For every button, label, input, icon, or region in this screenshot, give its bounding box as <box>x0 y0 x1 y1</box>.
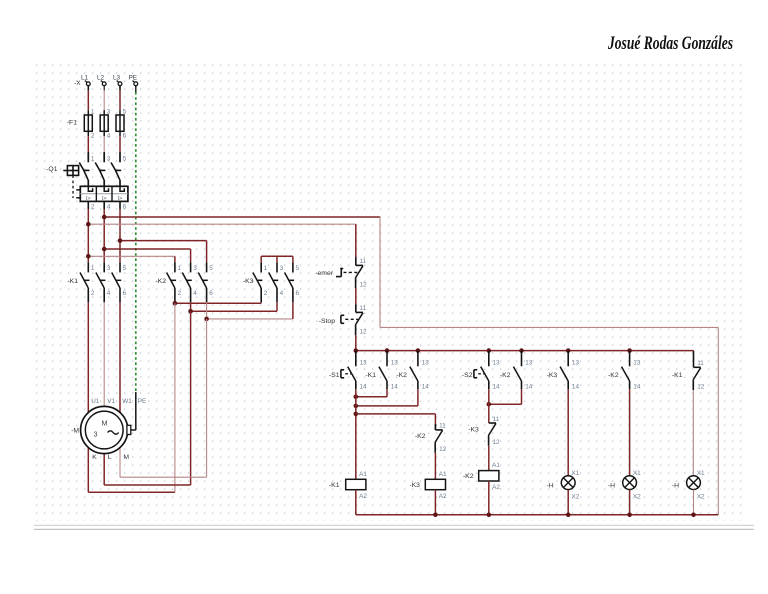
svg-text:L2: L2 <box>97 74 105 81</box>
svg-text:6: 6 <box>296 290 300 297</box>
svg-text:-K2: -K2 <box>396 372 407 379</box>
lamp -H X1-X2 (lamp3) <box>672 470 705 500</box>
wire branch to K2 NC contact <box>356 414 436 430</box>
svg-text:-K3: -K3 <box>243 278 254 285</box>
svg-text:K: K <box>92 454 97 461</box>
pushbutton -S2 NO 13-14 <box>462 351 500 391</box>
junction Q1:2 / K2:1 feed <box>86 254 91 259</box>
wire F1:2 to Q1:1 <box>87 136 89 152</box>
svg-text:11: 11 <box>493 416 500 423</box>
svg-text:X1: X1 <box>633 470 641 477</box>
svg-text:3: 3 <box>280 265 284 272</box>
breaker Q1 magnetic element I> <box>86 196 91 202</box>
coil -K2 A1-A2 <box>463 462 500 491</box>
svg-text:-K1: -K1 <box>672 372 683 379</box>
svg-text:13: 13 <box>493 359 501 366</box>
junction top rail <box>487 348 492 353</box>
wire L1 terminal to fuse F1:1 <box>87 86 89 111</box>
label -K3 NC <box>468 426 479 433</box>
svg-text:A1: A1 <box>492 462 500 469</box>
svg-text:5: 5 <box>123 265 127 272</box>
svg-text:13: 13 <box>422 359 430 366</box>
contactor K2 label <box>155 278 166 285</box>
label -K2 aux <box>396 372 407 379</box>
svg-text:W1: W1 <box>122 398 132 405</box>
label -K1 lamp3 <box>672 372 683 379</box>
coil -K1 A1-A2 <box>329 471 367 500</box>
svg-text:A2: A2 <box>492 484 500 491</box>
wire L3 to K2:5 (y240) <box>120 241 207 263</box>
wire motor L to K2:4 node <box>104 311 190 485</box>
svg-text:4: 4 <box>280 290 284 297</box>
svg-text:14: 14 <box>633 383 641 390</box>
lamp -H X1-X2 (lamp1) <box>547 470 580 500</box>
emergency stop button -emer NC 11-12 <box>315 257 367 288</box>
junction bottom rail <box>627 513 632 518</box>
svg-text:-K2: -K2 <box>415 433 426 440</box>
wire K1:2 to motor U1 <box>87 302 89 413</box>
wire coil K3 to bottom rail <box>434 490 436 515</box>
svg-text:2: 2 <box>178 290 182 297</box>
wire F1:4 to Q1:3 <box>103 136 105 152</box>
wire PE green dashed <box>135 86 137 392</box>
svg-text:X1: X1 <box>572 470 580 477</box>
svg-text:1: 1 <box>91 265 95 272</box>
svg-text:-X: -X <box>74 80 81 87</box>
fuse F1 pole 3-4 <box>100 109 111 140</box>
svg-text:11: 11 <box>439 423 446 430</box>
aux contact -K2 NO 13-14 (group2) <box>513 351 532 391</box>
fuse F1 pole 1-2 <box>84 109 95 140</box>
aux contact -K3 NC 11-12 <box>488 416 500 446</box>
breaker Q1 thermal element <box>88 186 92 191</box>
wire K1:14 return to S1 column <box>356 389 387 397</box>
svg-text:1: 1 <box>178 265 182 272</box>
svg-text:3: 3 <box>94 430 98 439</box>
wire K3 star bridge 1-3-5 <box>261 256 293 262</box>
wire Q1:6 down to K1:5 <box>119 209 121 262</box>
svg-text:-K2: -K2 <box>608 372 619 379</box>
wire motor M to K2:6 node <box>120 319 207 477</box>
junction top rail <box>385 348 390 353</box>
svg-text:-S2: -S2 <box>462 372 473 379</box>
junction K2:4 / motor L <box>188 309 193 314</box>
aux contact -K3 NO 13-14 (lamp1) <box>560 351 579 391</box>
junction K2:2 / motor K <box>173 301 178 306</box>
wire motor K to K2:2 node <box>88 303 175 492</box>
svg-text:14: 14 <box>391 383 399 390</box>
svg-text:3: 3 <box>107 109 111 116</box>
contactor K2 main pole 5-6 <box>198 262 213 302</box>
svg-text:X2: X2 <box>633 493 641 500</box>
svg-text:4: 4 <box>193 290 197 297</box>
svg-text:12: 12 <box>360 328 368 335</box>
breaker Q1 magnetic element I> <box>118 196 123 202</box>
svg-text:6: 6 <box>209 290 213 297</box>
svg-text:3: 3 <box>107 156 111 163</box>
aux contact -K1 NC 11-12 (lamp3) <box>693 351 705 391</box>
terminal L3 <box>117 81 122 86</box>
wire K3 aux to lamp H1 <box>567 389 569 476</box>
wire L2 to K2:3 (y249) <box>104 249 190 262</box>
junction bottom rail <box>691 513 696 518</box>
wire K2:14 return to S2 column <box>489 389 522 404</box>
breaker Q1 bottom pins 2 4 6 <box>88 201 126 210</box>
junction bottom rail <box>487 513 492 518</box>
svg-text:I>: I> <box>102 196 107 202</box>
svg-text:4: 4 <box>107 132 111 139</box>
svg-text:11: 11 <box>360 258 367 265</box>
contactor K2 main pole 1-2 <box>167 262 182 302</box>
wire L1 to K2:1 (y256) <box>88 256 175 262</box>
junction top rail <box>627 348 632 353</box>
canvas bottom border <box>34 525 754 529</box>
label -K3 lamp1 <box>547 372 558 379</box>
svg-text:-K3: -K3 <box>547 372 558 379</box>
svg-text:1: 1 <box>91 156 95 163</box>
terminal L1 <box>85 81 90 86</box>
junction top rail <box>566 348 571 353</box>
svg-text:14: 14 <box>360 383 368 390</box>
svg-text:5: 5 <box>123 156 127 163</box>
wire emer:12 to Stop:11 <box>355 288 357 304</box>
svg-text:-F1: -F1 <box>67 120 77 127</box>
junction top rail <box>519 348 524 353</box>
wire Stop:12 to rail <box>355 335 357 350</box>
svg-text:14: 14 <box>525 383 533 390</box>
motor PE connection <box>127 392 136 435</box>
contactor K3 main pole 3-4 <box>269 262 284 302</box>
junction bottom rail <box>433 513 438 518</box>
control top rail <box>356 350 694 352</box>
svg-text:6: 6 <box>123 203 127 210</box>
svg-text:12: 12 <box>439 446 447 453</box>
wire L2 terminal to fuse F1:3 <box>103 86 105 111</box>
svg-text:Josué Rodas Gonzáles: Josué Rodas Gonzáles <box>607 33 733 54</box>
breaker Q1 thermal element <box>120 186 124 191</box>
junction Q1:6 / K2:5 feed <box>118 238 123 243</box>
svg-text:6: 6 <box>123 132 127 139</box>
wire coil K1 to bottom rail <box>355 490 357 515</box>
wire coil K2 to bottom rail <box>488 481 490 515</box>
aux contact -K2 NO 13-14 <box>410 351 429 391</box>
svg-text:-K1: -K1 <box>329 482 340 489</box>
svg-text:M: M <box>102 419 108 428</box>
junction branch to K2 NC <box>354 412 359 417</box>
breaker Q1 pole 3-4 contact <box>95 152 111 186</box>
breaker Q1 pole 1-2 contact <box>79 152 95 186</box>
svg-text:13: 13 <box>572 359 580 366</box>
svg-text:12: 12 <box>360 281 368 288</box>
svg-text:-Stop: -Stop <box>319 318 335 325</box>
svg-text:12: 12 <box>697 383 705 390</box>
label -K2 NC <box>415 433 426 440</box>
contactor K1 main pole 3-4 <box>96 262 111 302</box>
svg-text:A1: A1 <box>359 471 367 478</box>
breaker Q1 pole 5-6 contact <box>111 152 127 186</box>
control bottom rail <box>356 514 719 516</box>
svg-text:-K3: -K3 <box>468 426 479 433</box>
wire F1:6 to Q1:5 <box>119 136 121 152</box>
svg-text:PE: PE <box>138 398 147 405</box>
wire K2:14 return to S1 column <box>356 389 418 406</box>
svg-text:I>: I> <box>118 196 123 202</box>
svg-text:V1: V1 <box>107 398 115 405</box>
junction Q1:4 / K2:3 feed <box>102 247 107 252</box>
wire K2 aux to lamp H2 <box>629 389 631 476</box>
label -K2 aux group2 <box>500 372 511 379</box>
lamp -H X1-X2 (lamp2) <box>608 470 641 500</box>
svg-text:-H: -H <box>608 482 615 489</box>
svg-text:4: 4 <box>107 290 111 297</box>
svg-text:5: 5 <box>296 265 300 272</box>
svg-text:-K3: -K3 <box>409 482 420 489</box>
svg-text:11: 11 <box>360 305 367 312</box>
wire K2:4 to K3:4 <box>191 302 277 311</box>
breaker Q1 thermal element <box>104 186 108 191</box>
contactor K3 main pole 5-6 <box>285 262 300 302</box>
svg-text:-K2: -K2 <box>155 278 166 285</box>
svg-text:-Q1: -Q1 <box>46 166 58 173</box>
label -K2 lamp2 <box>608 372 619 379</box>
contactor K3 main pole 1-2 <box>253 262 268 302</box>
svg-text:L1: L1 <box>81 74 89 81</box>
svg-text:M: M <box>123 454 129 461</box>
svg-text:I>: I> <box>86 196 91 202</box>
wire Q1:4 down to K1:3 <box>103 209 105 262</box>
svg-text:12: 12 <box>493 439 501 446</box>
breaker Q1 handle box <box>63 166 80 198</box>
contactor K3 label <box>243 278 254 285</box>
junction bottom rail <box>566 513 571 518</box>
junction S1 column y397 <box>354 395 359 400</box>
wire K1:6 to motor W1 <box>119 302 121 413</box>
svg-text:13: 13 <box>525 359 533 366</box>
contactor K1 main pole 5-6 <box>112 262 127 302</box>
junction Q1:2 / emer feed <box>86 222 91 227</box>
motor M 3~ <box>71 406 128 453</box>
svg-text:13: 13 <box>633 359 641 366</box>
svg-text:L: L <box>108 454 112 461</box>
fuse F1 label <box>67 120 77 127</box>
wire S2 column down to K3 NC <box>488 389 490 423</box>
wire K2:6 to K3:6 <box>207 302 293 319</box>
junction K2:6 / motor M <box>204 317 209 322</box>
wire L1 feed to emergency stop (y224) <box>88 224 356 257</box>
svg-text:1: 1 <box>264 265 268 272</box>
svg-text:-K1: -K1 <box>67 278 78 285</box>
svg-text:-M: -M <box>71 428 79 435</box>
svg-text:L3: L3 <box>113 74 121 81</box>
wire Q1:2 down to K1:1 <box>87 209 89 262</box>
wire K3 NC to coil K2 <box>488 446 490 471</box>
wire L2 feed to control circuit (y217) and return via right side <box>104 217 718 515</box>
svg-text:11: 11 <box>697 360 704 367</box>
wire K2:2 to K3:2 <box>175 301 261 304</box>
svg-text:6: 6 <box>123 290 127 297</box>
aux contact -K1 NO 13-14 <box>379 351 398 391</box>
svg-text:PE: PE <box>129 74 138 81</box>
svg-text:-K2: -K2 <box>500 372 511 379</box>
svg-text:A2: A2 <box>359 493 367 500</box>
svg-text:5: 5 <box>209 265 213 272</box>
wire S1 column down to coil K1 <box>355 389 357 479</box>
contactor K1 main pole 1-2 <box>80 262 95 302</box>
breaker Q1 label <box>46 166 58 173</box>
svg-text:14: 14 <box>572 383 580 390</box>
svg-text:-H: -H <box>547 482 554 489</box>
junction S2 column y404 <box>487 402 492 407</box>
svg-text:2: 2 <box>264 290 268 297</box>
terminal strip -X labels <box>74 74 137 87</box>
svg-text:X1: X1 <box>697 470 705 477</box>
svg-text:2: 2 <box>91 203 95 210</box>
wire lamp H1 to bottom rail <box>567 490 569 515</box>
label -K1 aux <box>365 372 376 379</box>
junction top rail <box>354 348 359 353</box>
motor M terminal labels U1 V1 W1 PE <box>91 398 146 405</box>
stop button -Stop NC 11-12 <box>319 304 367 335</box>
breaker Q1 trip-unit box <box>80 186 128 201</box>
svg-text:-K1: -K1 <box>365 372 376 379</box>
pushbutton -S1 NO 13-14 <box>329 351 367 391</box>
svg-text:X2: X2 <box>697 493 705 500</box>
svg-text:14: 14 <box>422 383 430 390</box>
contactor K1 label <box>67 278 78 285</box>
svg-text:-emer: -emer <box>315 270 333 277</box>
terminal PE <box>133 81 138 86</box>
junction top rail <box>416 348 421 353</box>
breaker Q1 magnetic element I> <box>102 196 107 202</box>
aux contact -K2 NO 13-14 (lamp2) <box>622 351 641 391</box>
svg-text:13: 13 <box>360 359 368 366</box>
svg-text:2: 2 <box>91 290 95 297</box>
terminal L2 <box>101 81 106 86</box>
svg-text:U1: U1 <box>91 398 100 405</box>
contactor K2 main pole 3-4 <box>182 262 197 302</box>
coil -K3 A1-A2 <box>409 471 447 500</box>
svg-text:-K2: -K2 <box>463 473 474 480</box>
junction Q1:4 / control feed <box>102 215 107 220</box>
wire lamp H2 to bottom rail <box>629 490 631 515</box>
svg-text:-S1: -S1 <box>329 372 340 379</box>
wire K1:4 to motor V1 <box>103 302 105 406</box>
fuse F1 pole 5-6 <box>116 109 127 140</box>
svg-text:A2: A2 <box>439 493 447 500</box>
aux contact -K2 NC 11-12 <box>435 423 447 453</box>
junction S1 column y406 <box>354 404 359 409</box>
svg-text:3: 3 <box>107 265 111 272</box>
svg-text:3: 3 <box>193 265 197 272</box>
svg-text:5: 5 <box>123 109 127 116</box>
svg-text:4: 4 <box>107 203 111 210</box>
svg-text:13: 13 <box>391 359 399 366</box>
svg-text:1: 1 <box>91 109 95 116</box>
svg-text:2: 2 <box>91 132 95 139</box>
svg-text:-H: -H <box>672 482 679 489</box>
wire L3 terminal to fuse F1:5 <box>119 86 121 111</box>
svg-text:A1: A1 <box>439 471 447 478</box>
motor bottom labels K L M <box>92 454 129 461</box>
wire K2 NC to coil K3 <box>434 453 436 480</box>
wire lamp H3 to bottom rail <box>693 490 695 515</box>
wire K1 NC to lamp H3 <box>692 390 694 476</box>
svg-text:14: 14 <box>493 383 501 390</box>
svg-text:X2: X2 <box>572 493 580 500</box>
